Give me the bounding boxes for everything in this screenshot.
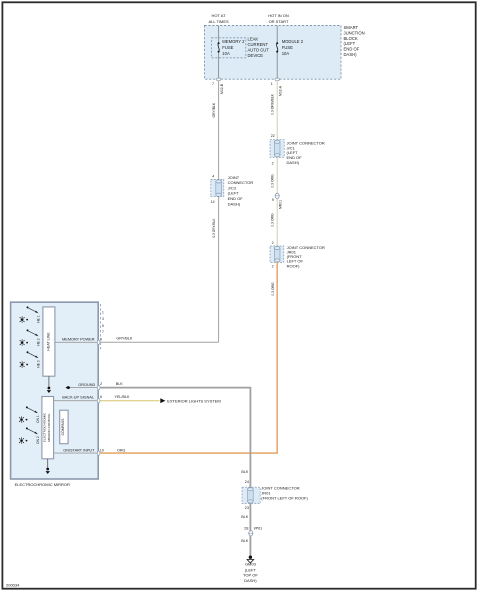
svg-text:0.3 ORG: 0.3 ORG <box>271 282 275 296</box>
svg-text:BLK: BLK <box>241 539 249 543</box>
svg-text:1: 1 <box>102 310 104 314</box>
svg-text:M02-B: M02-B <box>220 83 224 94</box>
svg-text:200034: 200034 <box>6 583 20 588</box>
svg-text:(LEFT: (LEFT <box>245 567 257 572</box>
svg-text:(LEFT: (LEFT <box>228 191 240 196</box>
svg-text:6: 6 <box>100 395 102 399</box>
svg-text:M02-A: M02-A <box>278 85 282 96</box>
svg-text:GRY/BLK: GRY/BLK <box>212 102 216 117</box>
svg-text:MR01: MR01 <box>278 200 282 209</box>
svg-text:2: 2 <box>272 162 274 166</box>
svg-text:5: 5 <box>102 324 104 328</box>
svg-text:0.3 ORG/BLK: 0.3 ORG/BLK <box>271 93 275 114</box>
svg-text:GROUND: GROUND <box>78 383 95 387</box>
svg-text:2: 2 <box>100 382 102 386</box>
svg-text:OR START: OR START <box>269 19 289 24</box>
svg-text:MODULE 2: MODULE 2 <box>282 39 304 44</box>
svg-text:MIRROR CONTROL: MIRROR CONTROL <box>47 413 51 442</box>
svg-text:J/C3: J/C3 <box>228 185 237 190</box>
svg-text:28: 28 <box>244 526 248 530</box>
svg-text:JOINT: JOINT <box>228 175 240 180</box>
svg-text:I/P01: I/P01 <box>254 527 263 531</box>
svg-text:24: 24 <box>245 480 249 484</box>
svg-text:BLK: BLK <box>241 470 249 474</box>
svg-text:7: 7 <box>212 82 214 86</box>
svg-text:4: 4 <box>212 175 214 179</box>
svg-text:0.3 GRY/BLK: 0.3 GRY/BLK <box>212 218 216 238</box>
svg-text:HOT IN ON: HOT IN ON <box>268 13 289 18</box>
svg-text:BACK-UP SIGNAL: BACK-UP SIGNAL <box>62 395 94 399</box>
svg-text:0.3 ORG: 0.3 ORG <box>271 213 275 227</box>
svg-text:GM03: GM03 <box>245 561 257 566</box>
svg-text:HE 1: HE 1 <box>37 315 41 322</box>
svg-text:ROOF): ROOF) <box>287 263 301 268</box>
svg-text:BLOCK: BLOCK <box>344 36 358 41</box>
svg-text:10A: 10A <box>222 51 230 56</box>
svg-text:DASH): DASH) <box>287 160 300 165</box>
svg-text:3: 3 <box>102 317 104 321</box>
svg-text:CURRENT: CURRENT <box>248 42 269 47</box>
svg-text:HOT AT: HOT AT <box>212 13 227 18</box>
svg-text:JUNCTION: JUNCTION <box>344 30 365 35</box>
svg-text:22: 22 <box>271 134 275 138</box>
svg-text:HE 2: HE 2 <box>37 338 41 345</box>
svg-text:14: 14 <box>211 200 215 204</box>
svg-text:0.3 ORG: 0.3 ORG <box>271 174 275 188</box>
svg-text:1: 1 <box>271 82 273 86</box>
svg-text:2: 2 <box>272 265 274 269</box>
svg-text:ON 1: ON 1 <box>36 415 40 423</box>
svg-text:FUSE: FUSE <box>222 45 233 50</box>
svg-text:END OF: END OF <box>228 196 244 201</box>
svg-text:ORG: ORG <box>117 449 126 453</box>
svg-text:HE 3: HE 3 <box>37 360 41 367</box>
svg-text:FUSE: FUSE <box>282 45 293 50</box>
svg-text:7: 7 <box>102 330 104 334</box>
svg-text:MEMORY 2: MEMORY 2 <box>222 39 245 44</box>
svg-text:DEVICE: DEVICE <box>248 53 264 58</box>
svg-text:10A: 10A <box>282 51 290 56</box>
svg-text:ALL TIMES: ALL TIMES <box>208 19 229 24</box>
svg-text:END OF: END OF <box>344 47 360 52</box>
svg-text:DASH): DASH) <box>244 578 257 583</box>
svg-text:ON/START INPUT: ON/START INPUT <box>63 449 95 453</box>
svg-text:23: 23 <box>245 506 249 510</box>
svg-text:SMART: SMART <box>344 25 359 30</box>
svg-text:BLK: BLK <box>116 382 124 386</box>
svg-text:CONNECTOR: CONNECTOR <box>228 180 254 185</box>
svg-text:TOP OF: TOP OF <box>243 573 258 578</box>
svg-text:9: 9 <box>272 198 274 202</box>
svg-text:YEL/BLK: YEL/BLK <box>115 395 131 399</box>
svg-text:MEMORY POWER: MEMORY POWER <box>62 338 95 342</box>
svg-text:ON 2: ON 2 <box>36 436 40 444</box>
svg-text:(FRONT LEFT OF ROOF): (FRONT LEFT OF ROOF) <box>261 496 308 501</box>
svg-text:DASH): DASH) <box>228 201 241 206</box>
svg-text:(LEFT: (LEFT <box>344 41 356 46</box>
svg-text:BLK: BLK <box>241 515 249 519</box>
svg-text:10: 10 <box>100 448 104 452</box>
svg-text:2: 2 <box>272 241 274 245</box>
svg-text:COMPASS: COMPASS <box>61 418 65 435</box>
svg-text:HEAT LINE: HEAT LINE <box>47 332 51 351</box>
svg-text:ELECTROCHROMIC MIRROR: ELECTROCHROMIC MIRROR <box>15 482 70 487</box>
svg-text:AUTO CUT: AUTO CUT <box>248 48 270 53</box>
svg-text:DASH): DASH) <box>344 52 358 57</box>
svg-text:GRY/BLK: GRY/BLK <box>116 337 132 341</box>
svg-text:LEAK: LEAK <box>248 37 259 42</box>
svg-text:EXTERIOR LIGHTS SYSTEM: EXTERIOR LIGHTS SYSTEM <box>167 398 221 403</box>
